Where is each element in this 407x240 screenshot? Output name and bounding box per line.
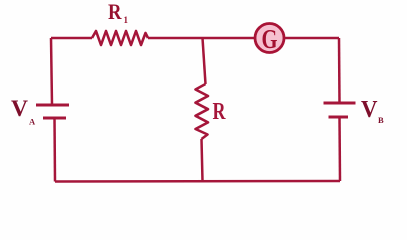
wire top-left segment	[51, 37, 92, 40]
battery VA plate long	[36, 104, 69, 107]
svg-text:A: A	[29, 117, 36, 127]
wire right lower	[338, 117, 341, 181]
wire top-middle segment	[148, 37, 255, 40]
battery VB plate short	[329, 116, 349, 119]
svg-text:R: R	[108, 0, 122, 24]
svg-text:G: G	[262, 24, 278, 54]
wire bottom	[55, 180, 340, 183]
wire left lower	[53, 118, 56, 182]
battery VB plate long	[324, 102, 356, 105]
resistor R1	[92, 31, 148, 45]
battery VA plate short	[43, 117, 66, 120]
wire right upper	[338, 38, 341, 103]
svg-text:B: B	[378, 115, 384, 125]
svg-text:V: V	[11, 96, 28, 121]
svg-text:R: R	[213, 99, 226, 125]
galvanometer G	[255, 24, 284, 53]
wire top-right segment	[285, 37, 340, 40]
wire left upper	[51, 38, 52, 105]
svg-text:1: 1	[124, 15, 129, 25]
wire middle lower	[202, 139, 203, 181]
svg-text:V: V	[361, 96, 378, 123]
wire middle upper	[203, 38, 206, 84]
resistor R	[196, 84, 209, 139]
